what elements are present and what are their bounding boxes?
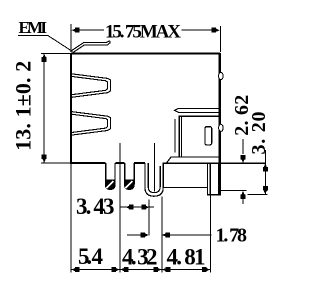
housing bottom line between leg and flange [164, 187, 208, 189]
side dimple bump 1 on right edge [219, 72, 224, 79]
arrowhead up tip at line C [263, 163, 268, 171]
contact pin 1 [106, 163, 115, 189]
EMI finger 1 (upper spring cutout) [72, 74, 111, 98]
extension line top [41, 52, 70, 54]
extension line at x=148.8 [148, 200, 150, 236]
bowtie arrowheads at 119.9 [111, 267, 119, 272]
pin 1 tip shading [106, 181, 115, 189]
arrowhead at 210.4 [202, 267, 210, 272]
rear flange (board lock) [207, 163, 221, 195]
bowtie arrowheads at 161.8 [153, 267, 161, 272]
EMI leader line [48, 36, 73, 52]
pin 2 tip shading [125, 181, 134, 189]
dimension 1.78 [127, 197, 212, 273]
arrowhead down [42, 155, 47, 163]
extension line bottom [41, 162, 74, 164]
bottom edge line C (body bottom right, extends as extension line) [162, 162, 265, 164]
arrowhead up [42, 54, 47, 62]
body left edge [70, 53, 72, 163]
svg-text:5. 4: 5. 4 [78, 244, 104, 269]
dimension 3.43 [120, 206, 154, 208]
dimension line [79, 29, 212, 31]
extension x=71 [70, 163, 72, 273]
rear housing box [167, 116, 219, 163]
EMI tab at top-left corner [70, 41, 110, 54]
extension x=119.9 centerline [119, 143, 121, 273]
extension line at x=161.8 [161, 197, 163, 273]
svg-text:3. 43: 3. 43 [76, 194, 115, 219]
dimension line [43, 54, 45, 163]
side dimple bump 2 on right edge [219, 124, 224, 131]
slot in rear housing [205, 127, 212, 145]
extension line right [219, 26, 221, 52]
extension line D [221, 190, 247, 192]
svg-text:15. 75MAX: 15. 75MAX [105, 21, 181, 42]
EMI finger 2 (lower spring cutout) [72, 112, 111, 136]
rear wedge tab (pointed, upper) [174, 108, 218, 112]
body top edge [71, 53, 220, 55]
dimension 3.20 [248, 150, 268, 195]
3.43 arrowhead right [141, 205, 149, 210]
extension line E [248, 194, 268, 196]
rear housing outer contour line [174, 119, 176, 153]
EMI underline [18, 35, 48, 37]
extension x=210.4 [209, 196, 211, 273]
svg-text:3. 20: 3. 20 [248, 112, 270, 155]
arrowhead right [212, 28, 220, 33]
arrowhead down tip at line E [263, 186, 268, 194]
dimension 13.1±0.2 [41, 53, 74, 163]
arrowhead up to line D [241, 191, 246, 199]
svg-text:1. 78: 1. 78 [216, 224, 248, 246]
extension line left [70, 24, 72, 52]
dimension 2.62 [221, 139, 247, 204]
arrowhead down to line C [241, 155, 246, 163]
1.78 arrowhead left-pointing [162, 233, 170, 238]
svg-text:4. 81: 4. 81 [167, 245, 206, 270]
contact pin 2 [125, 163, 135, 189]
bottom dimension extension lines [71, 143, 210, 273]
body bottom edge segments [70, 162, 145, 164]
svg-text:13. 1±0. 2: 13. 1±0. 2 [11, 61, 36, 151]
shield leg (bottom center U tab) [145, 143, 163, 196]
arrowhead at 71 [71, 267, 79, 272]
1.78 arrowhead right-pointing [141, 233, 149, 238]
svg-text:EMI: EMI [19, 18, 48, 37]
3.43 arrowhead left [126, 205, 134, 210]
svg-text:4. 32: 4. 32 [122, 245, 158, 270]
bottom dimension line [71, 269, 210, 271]
body shield outline [70, 53, 220, 195]
arrowhead left [72, 28, 80, 33]
dimension 15.75MAX [71, 24, 220, 52]
body right edge [219, 53, 221, 163]
